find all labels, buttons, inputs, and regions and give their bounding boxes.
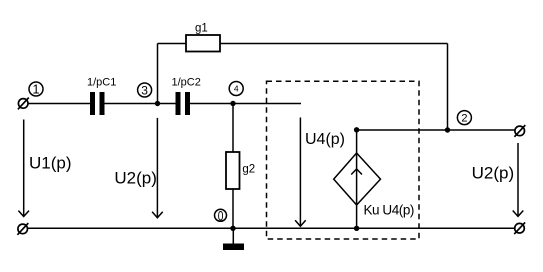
svg-text:0: 0 bbox=[218, 207, 224, 223]
svg-text:U4(p): U4(p) bbox=[305, 131, 345, 148]
svg-text:Ku U4(p): Ku U4(p) bbox=[364, 203, 414, 218]
wire: dependent source top stub bbox=[356, 130, 358, 154]
junction source bottom bbox=[354, 226, 359, 231]
terminal: input port top-left bbox=[18, 98, 29, 110]
terminal: input port bottom-left bbox=[17, 223, 28, 235]
junction output node 2 bbox=[445, 127, 450, 132]
terminal: output port bottom-right bbox=[514, 222, 525, 234]
svg-text:3: 3 bbox=[141, 83, 148, 97]
wire: main top rail segment from input terminal to C1 bbox=[28, 103, 91, 105]
svg-text:1/pC2: 1/pC2 bbox=[172, 77, 201, 89]
arrow U2(p) right bbox=[513, 143, 524, 216]
svg-text:g2: g2 bbox=[242, 164, 255, 176]
resistor g1 bbox=[186, 23, 220, 52]
junction g2 ground bbox=[230, 226, 235, 231]
svg-text:U2(p): U2(p) bbox=[472, 164, 515, 183]
wire: node 3 up to feedback branch bbox=[157, 44, 159, 104]
dependent source Ku U4(p) diamond bbox=[334, 153, 381, 205]
wire: feedback right segment from g1 bbox=[220, 43, 448, 45]
arrow U2(p) left bbox=[152, 118, 163, 218]
terminal: output port top-right bbox=[514, 125, 525, 137]
junction node 3 bbox=[155, 101, 160, 106]
wire: bottom ground rail bbox=[28, 227, 515, 229]
arrow U1(p) bbox=[18, 120, 29, 217]
wire: dependent source bottom stub bbox=[356, 204, 358, 228]
arrow U4(p) bbox=[295, 118, 306, 227]
svg-text:U1(p): U1(p) bbox=[29, 153, 72, 172]
capacitor C1 (1/pC1) bbox=[87, 77, 116, 116]
node 2 bbox=[457, 111, 471, 125]
svg-text:U2(p): U2(p) bbox=[114, 169, 157, 188]
wire: node 4 down to g2 bbox=[232, 104, 234, 153]
dashed subcircuit box bbox=[267, 81, 420, 239]
resistor g2 bbox=[226, 152, 255, 189]
svg-text:1/pC1: 1/pC1 bbox=[87, 77, 116, 89]
capacitor C2 (1/pC2) bbox=[172, 77, 201, 116]
svg-text:2: 2 bbox=[461, 113, 467, 125]
wire: output rail from source to output terminal bbox=[357, 129, 515, 131]
svg-text:4: 4 bbox=[234, 84, 239, 94]
node 1 bbox=[29, 82, 43, 97]
node 3 bbox=[138, 83, 152, 97]
ground bbox=[223, 228, 244, 250]
wire: feedback drop to output node bbox=[447, 44, 449, 131]
svg-text:1: 1 bbox=[33, 83, 40, 97]
svg-text:g1: g1 bbox=[195, 23, 208, 35]
wire: feedback left segment to g1 bbox=[158, 43, 187, 45]
wire: g2 down to ground rail bbox=[232, 189, 234, 228]
junction node 4 bbox=[230, 101, 235, 106]
node 4 bbox=[229, 82, 243, 96]
node 0 bbox=[215, 207, 227, 223]
wire: segment between C1 and C2 bbox=[105, 103, 176, 105]
junction source top bbox=[354, 127, 359, 132]
wire: segment from C2 past node 4 ending inside dashed box bbox=[190, 103, 301, 105]
